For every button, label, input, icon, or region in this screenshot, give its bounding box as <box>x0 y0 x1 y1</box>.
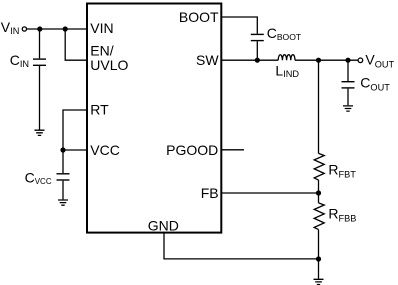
svg-text:BOOT: BOOT <box>179 9 219 25</box>
svg-text:VCC: VCC <box>90 142 120 158</box>
svg-text:GND: GND <box>148 217 179 233</box>
svg-text:FB: FB <box>201 185 219 201</box>
svg-text:UVLO: UVLO <box>90 57 128 73</box>
svg-text:SW: SW <box>196 52 219 68</box>
svg-text:PGOOD: PGOOD <box>166 142 218 158</box>
svg-text:VIN: VIN <box>90 20 113 36</box>
svg-text:RT: RT <box>90 101 109 117</box>
